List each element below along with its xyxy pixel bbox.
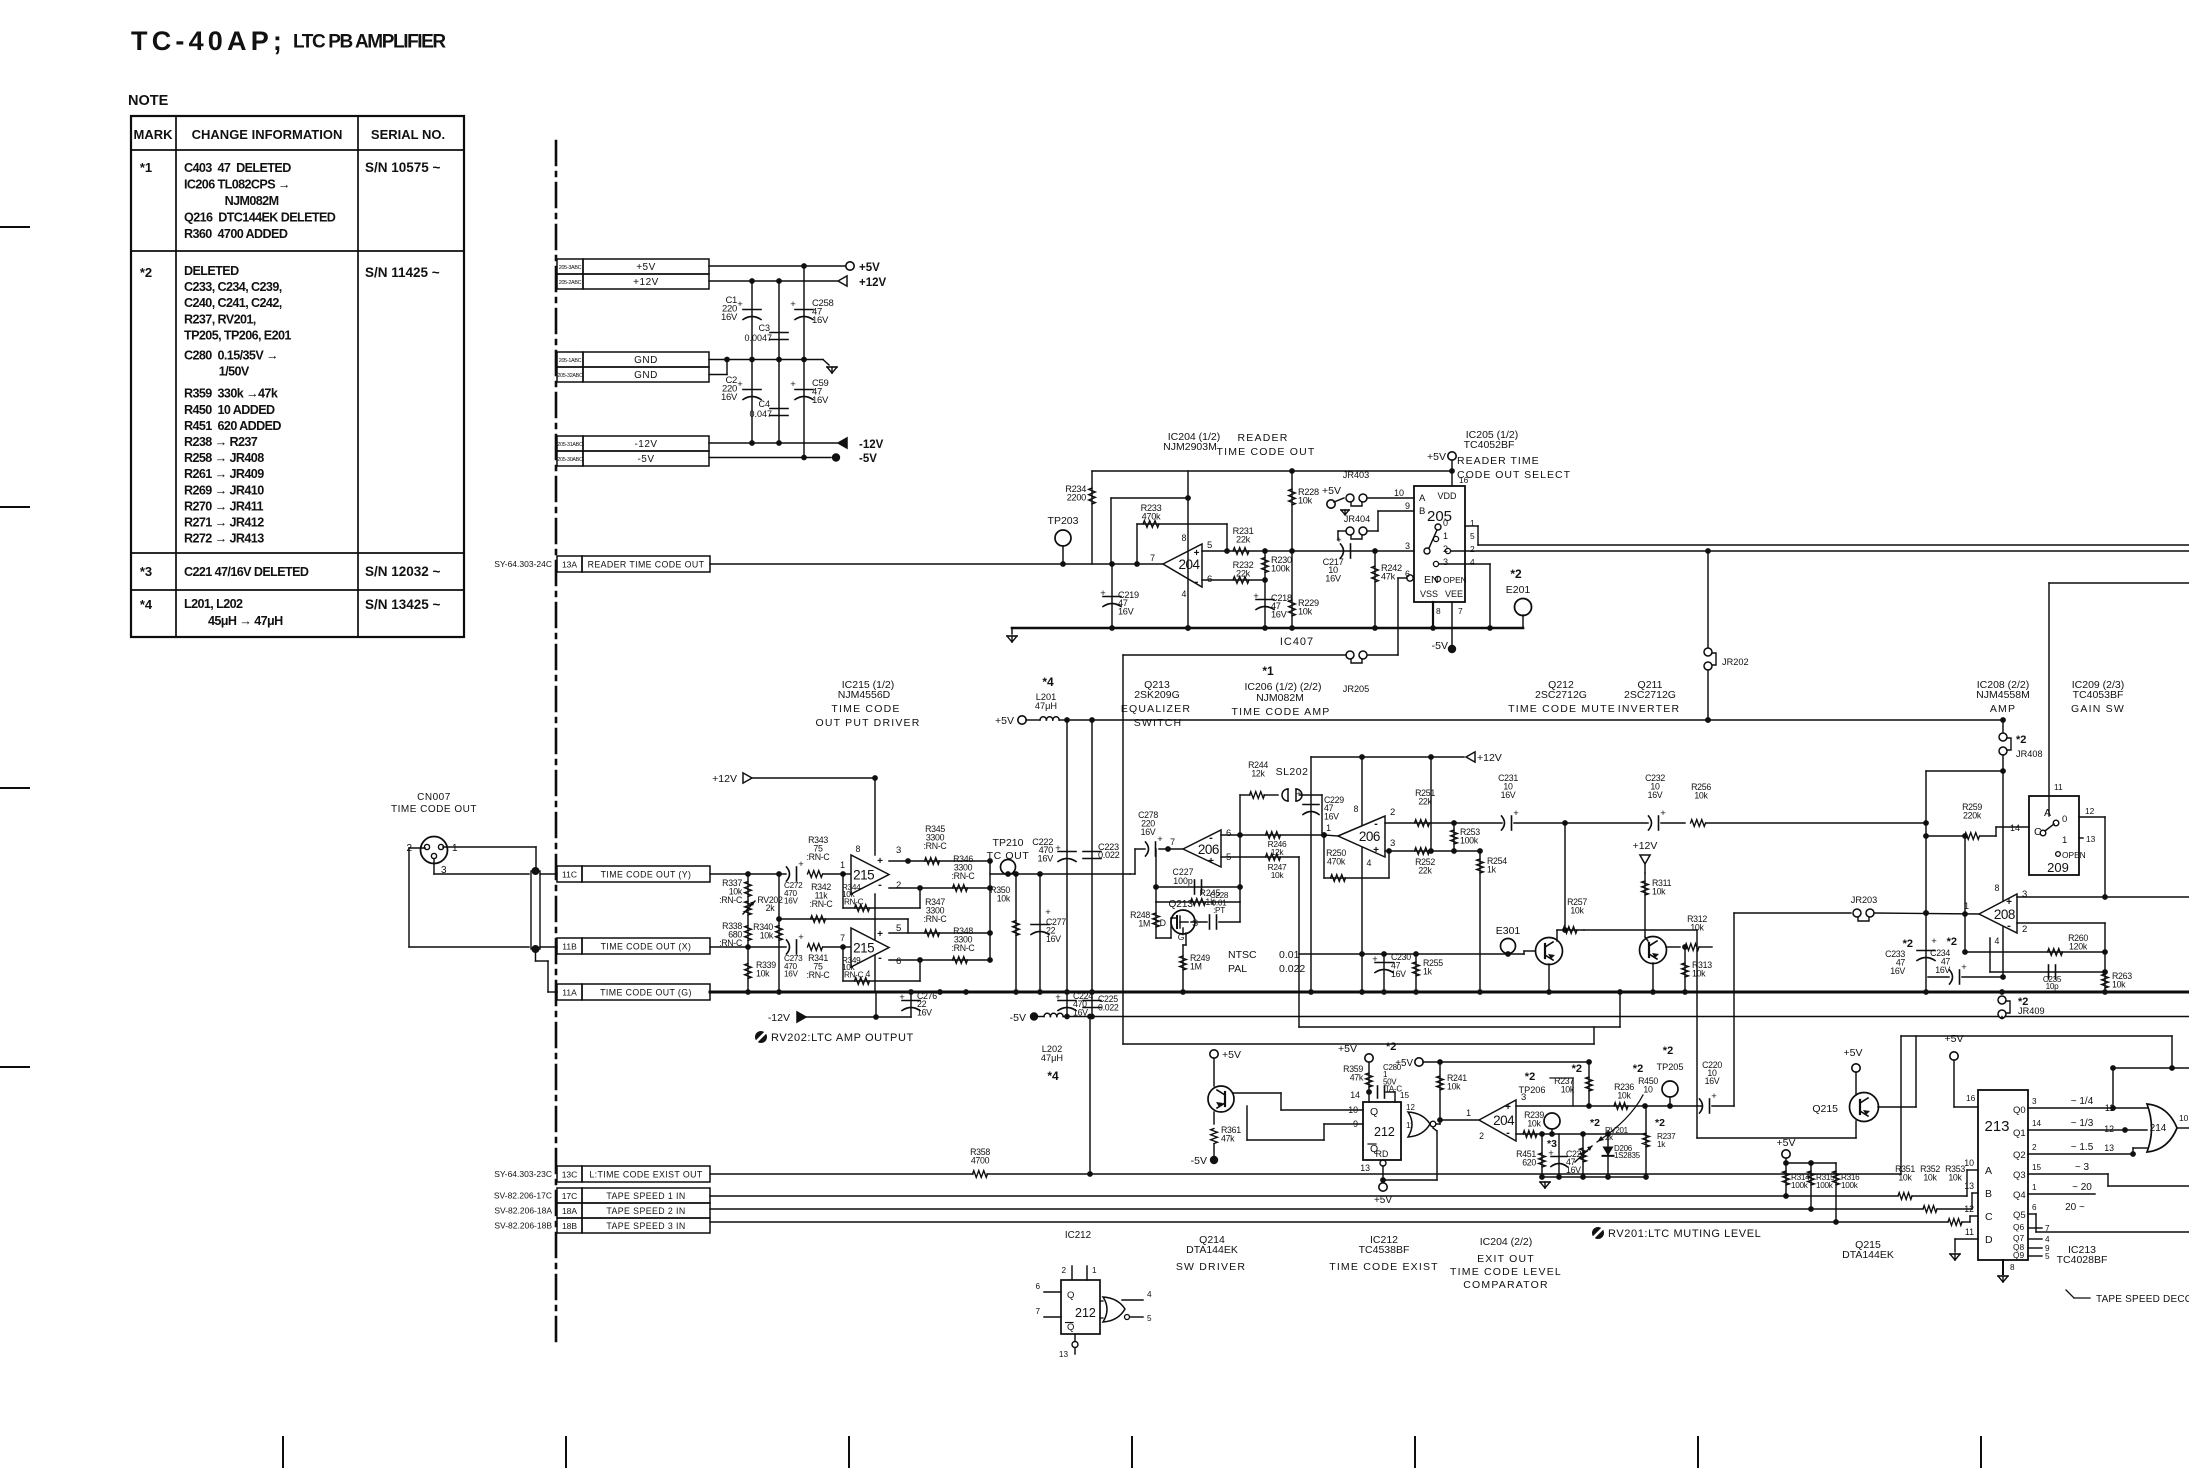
svg-text:620: 620: [1522, 1158, 1536, 1168]
svg-text:C233, C234, C239,: C233, C234, C239,: [184, 280, 282, 294]
capacitor C1: [721, 295, 761, 323]
wire 11C line: [710, 871, 786, 877]
svg-text:2: 2: [1470, 544, 1475, 554]
capacitor C258: [790, 298, 833, 326]
wire op-amp V- vertical: [875, 894, 876, 1017]
svg-text:+12V: +12V: [1633, 840, 1658, 852]
svg-text:-5V: -5V: [1191, 1155, 1207, 1167]
svg-text:214: 214: [2150, 1123, 2167, 1134]
svg-text:SY-64.303-24C: SY-64.303-24C: [494, 559, 552, 569]
svg-text:0.047: 0.047: [749, 409, 772, 419]
terminal +12V amp: [1466, 752, 1502, 764]
wire JR205 left long: [1123, 655, 1346, 1044]
svg-text:206: 206: [1198, 842, 1219, 857]
terminal +12V inverter: [1633, 840, 1658, 873]
wire -12V rail: [709, 440, 837, 446]
op-amp IC215-1 (215): [840, 844, 901, 894]
OR gate IC214 (214): [2104, 1103, 2189, 1153]
svg-text:-: -: [1506, 1127, 1510, 1139]
label READER TIME CODE OUT SELECT: [1457, 455, 1571, 481]
svg-text:S/N 11425 ~: S/N 11425 ~: [365, 265, 440, 280]
svg-text:TIME CODE: TIME CODE: [831, 703, 900, 715]
svg-text:-12V: -12V: [634, 439, 657, 450]
svg-text:10k: 10k: [1447, 1082, 1461, 1092]
wire 208 pin3 line: [2017, 894, 2189, 900]
svg-text:Q0: Q0: [2013, 1105, 2026, 1116]
svg-text:8: 8: [856, 844, 861, 854]
svg-text:16V: 16V: [1501, 790, 1516, 800]
svg-text:213: 213: [1984, 1118, 2009, 1135]
page tick mark left 3: [0, 787, 29, 789]
wire staircase L2: [1299, 989, 1623, 1044]
svg-text:G: G: [1178, 932, 1185, 942]
svg-text:S/N 13425 ~: S/N 13425 ~: [365, 597, 441, 612]
svg-text:*2: *2: [1663, 1045, 1673, 1057]
capacitor C277: [1031, 874, 1066, 992]
svg-text:2k: 2k: [766, 903, 776, 913]
svg-text:16V: 16V: [1038, 853, 1055, 863]
page tick mark bottom 5: [1414, 1437, 1416, 1467]
svg-text:-: -: [878, 952, 882, 964]
svg-text:18B: 18B: [562, 1221, 577, 1231]
svg-text:1: 1: [840, 860, 845, 870]
wire +5V rail main: [1064, 717, 2006, 723]
svg-text:C4: C4: [758, 399, 770, 409]
svg-text:15: 15: [2032, 1163, 2042, 1172]
svg-text:EN: EN: [1424, 574, 1439, 586]
svg-text:+: +: [899, 992, 905, 1003]
wire IC209 pin12 to 208: [2079, 817, 2105, 897]
capacitor C223: [1083, 720, 1120, 992]
svg-text:16V: 16V: [1391, 969, 1406, 979]
svg-text:NJM082M: NJM082M: [1256, 692, 1304, 704]
svg-text:READER TIME: READER TIME: [1457, 455, 1540, 467]
svg-text:R269 → JR410: R269 → JR410: [184, 483, 264, 497]
svg-text:NJM082M: NJM082M: [184, 194, 279, 208]
capacitor C224: [1055, 991, 1093, 1017]
wire mute row: [1299, 951, 1524, 957]
svg-text:2: 2: [2032, 1143, 2037, 1152]
svg-text:RV202:LTC AMP OUTPUT: RV202:LTC AMP OUTPUT: [771, 1032, 914, 1044]
svg-text:+: +: [1931, 936, 1937, 947]
svg-text:204: 204: [1493, 1113, 1515, 1128]
wire shield to 11B: [540, 946, 557, 948]
resistor R230: [1262, 551, 1292, 580]
svg-text:6: 6: [2032, 1203, 2037, 1212]
resistor R242: [1372, 551, 1402, 628]
wire JR203 line: [1734, 913, 1851, 1106]
svg-text:+: +: [877, 856, 883, 867]
svg-text:GND: GND: [634, 370, 658, 381]
IC205 pin number labels: [1394, 475, 1475, 616]
resistor R348: [952, 926, 976, 963]
svg-text:205-1ABC: 205-1ABC: [559, 358, 582, 364]
svg-text:L201, L202: L201, L202: [184, 597, 243, 611]
svg-text:7: 7: [840, 933, 845, 943]
NOTE label: [128, 93, 169, 109]
svg-text:10k: 10k: [1271, 870, 1285, 880]
note table header: [134, 127, 446, 142]
svg-text:0: 0: [1443, 518, 1448, 528]
wire R342 line: [779, 919, 908, 933]
label IC208 (2/2) NJM4558M AMP: [1976, 679, 2030, 715]
svg-text:16V: 16V: [1073, 1007, 1088, 1017]
svg-text:12: 12: [2104, 1124, 2114, 1134]
svg-text:13: 13: [2104, 1143, 2114, 1153]
svg-text:3: 3: [1390, 838, 1395, 849]
wire pin3 line 206-2: [1385, 848, 1483, 854]
jumper JR205: [1343, 651, 1370, 694]
svg-text:C403 47 DELETED: C403 47 DELETED: [184, 161, 291, 175]
svg-text:*4: *4: [1042, 675, 1054, 689]
svg-text:5: 5: [1147, 1314, 1152, 1323]
svg-text:*2: *2: [1590, 1117, 1600, 1129]
terminal -5V: [832, 453, 877, 465]
svg-text:TP205: TP205: [1656, 1062, 1683, 1072]
svg-text:100p: 100p: [1173, 876, 1193, 886]
resistor R251: [1415, 788, 1436, 826]
wire 13C to right column: [1901, 1036, 2175, 1174]
svg-text:11: 11: [2105, 1103, 2114, 1113]
resistor R263: [2102, 971, 2133, 995]
svg-text:+5V: +5V: [1222, 1049, 1241, 1061]
svg-text:2k: 2k: [1605, 1133, 1614, 1142]
svg-text:20 ~: 20 ~: [2065, 1202, 2085, 1213]
jumper JR409: [1998, 989, 2045, 1018]
svg-text:C3: C3: [758, 323, 770, 333]
svg-text:47μH: 47μH: [1035, 701, 1057, 711]
svg-text:1: 1: [2062, 835, 2067, 846]
svg-text:4: 4: [1470, 557, 1475, 567]
svg-text:8: 8: [2010, 1263, 2015, 1272]
svg-text:TP205, TP206, E201: TP205, TP206, E201: [184, 328, 291, 342]
svg-text:208: 208: [1994, 907, 2015, 922]
svg-text:100k: 100k: [1816, 1181, 1834, 1190]
svg-text:470k: 470k: [1142, 512, 1161, 522]
resistor R338: [719, 921, 751, 948]
bus 11A ground: [710, 989, 2189, 995]
connector 18B TAPE SPEED 3 IN: [494, 1218, 710, 1233]
svg-text:+: +: [1548, 1148, 1554, 1159]
wire staircase L3: [1123, 1043, 1594, 1045]
svg-text:JR203: JR203: [1851, 895, 1878, 905]
wire comparator pin3 line: [1516, 1103, 1702, 1109]
transistor Q214: [1208, 1086, 1234, 1124]
capacitor C229: [1296, 757, 1344, 992]
svg-text:5: 5: [1470, 531, 1475, 541]
svg-text:+5V: +5V: [1374, 1195, 1392, 1206]
resistor R340: [753, 922, 782, 941]
svg-text:Q: Q: [1067, 1322, 1074, 1333]
terminal -12V driver: [768, 1012, 911, 1024]
resistor R342: [810, 882, 834, 922]
svg-text:10k: 10k: [2112, 980, 2126, 990]
terminal +5V R314: [1777, 1137, 1836, 1166]
terminal +5V Q214: [1210, 1049, 1241, 1086]
resistor R229: [1289, 551, 1319, 628]
svg-text:-5V: -5V: [637, 454, 654, 465]
resistor R337: [719, 874, 751, 992]
page tick mark left 4: [0, 1066, 29, 1068]
resistor R231: [1233, 526, 1254, 554]
svg-text:Q1: Q1: [2013, 1128, 2026, 1139]
svg-text:+: +: [1208, 856, 1214, 867]
transistor Q212: [1524, 930, 1563, 992]
svg-text:LTC PB AMPLIFIER: LTC PB AMPLIFIER: [293, 32, 446, 53]
svg-text:10k: 10k: [1570, 906, 1584, 916]
page tick mark bottom 4: [1131, 1437, 1133, 1467]
svg-text:+: +: [1711, 1091, 1717, 1102]
capacitor C222: [1032, 720, 1076, 992]
wire +5V sub-rail reader: [1092, 468, 1455, 474]
svg-text:+: +: [1055, 992, 1061, 1003]
svg-text:TC4538BF: TC4538BF: [1359, 1244, 1410, 1256]
page tick mark bottom 1: [282, 1437, 284, 1467]
svg-text:47k: 47k: [1350, 1073, 1364, 1083]
svg-text:R271 → JR412: R271 → JR412: [184, 516, 264, 530]
svg-text:5: 5: [2045, 1252, 2050, 1261]
svg-text:+: +: [1336, 535, 1342, 546]
svg-text:MARK: MARK: [134, 127, 174, 142]
svg-text:9: 9: [1353, 1119, 1358, 1129]
svg-text:3: 3: [896, 845, 901, 856]
svg-text:7: 7: [2045, 1224, 2050, 1233]
capacitor C280: [1366, 1086, 1395, 1102]
capacitor C231: [1498, 773, 1568, 830]
svg-text:VSS: VSS: [1420, 589, 1438, 599]
svg-text:*2: *2: [1572, 1063, 1582, 1075]
wire pin5 line: [1202, 548, 1414, 554]
svg-text:100k: 100k: [1271, 564, 1290, 574]
svg-text:47μH: 47μH: [1041, 1053, 1063, 1063]
svg-text:C: C: [1985, 1211, 1993, 1223]
svg-text:100k: 100k: [1791, 1181, 1809, 1190]
svg-text:-12V: -12V: [768, 1012, 790, 1024]
svg-text:10k: 10k: [1948, 1173, 1962, 1183]
svg-text:TIME CODE OUT (X): TIME CODE OUT (X): [601, 941, 692, 951]
rheostat RV202: [743, 895, 783, 915]
wire 206 out node: [1321, 832, 1338, 838]
svg-text:L:TIME CODE EXIST OUT: L:TIME CODE EXIST OUT: [589, 1169, 703, 1179]
resistor R450 pointer: [1597, 1063, 1658, 1142]
svg-text:EQUALIZER: EQUALIZER: [1121, 703, 1191, 715]
svg-text:16V: 16V: [812, 315, 829, 326]
wire JR408 cross link: [1923, 771, 2006, 980]
svg-text:1: 1: [1466, 1108, 1471, 1118]
svg-text:SERIAL NO.: SERIAL NO.: [371, 127, 445, 142]
label READER TIME CODE OUT: [1216, 432, 1315, 458]
resistor R241: [1437, 1062, 1468, 1120]
svg-text:IC212: IC212: [1065, 1230, 1091, 1241]
svg-text:TC-40AP;: TC-40AP;: [131, 26, 286, 56]
wire +12V to pin8: [874, 778, 876, 855]
resistor R346: [952, 854, 976, 891]
svg-text:TC4053BF: TC4053BF: [2073, 689, 2124, 701]
spark gap SL202: [1276, 766, 1309, 801]
svg-text:16V: 16V: [1324, 811, 1339, 821]
wire -5V rail: [709, 455, 831, 461]
svg-text:12: 12: [1406, 1103, 1415, 1112]
wire tape speed 3 line: [710, 1219, 1948, 1225]
IC205 selector box (205): [1414, 486, 1467, 602]
connector 13A READER TIME CODE OUT: [494, 556, 710, 572]
resistor R255: [1413, 954, 1444, 992]
svg-text:10k: 10k: [1652, 887, 1666, 897]
svg-text:12k: 12k: [1251, 769, 1265, 779]
svg-text:14: 14: [2010, 823, 2020, 833]
IC213 pin D wire: [1950, 1239, 1978, 1260]
svg-text:E301: E301: [1496, 925, 1521, 937]
svg-text:16V: 16V: [1890, 966, 1905, 976]
wire 11B line: [710, 944, 786, 950]
resistor R247: [1266, 854, 1288, 880]
comparator ground row: [1539, 1174, 1649, 1188]
page tick mark bottom 2: [565, 1437, 567, 1467]
svg-text:+: +: [1513, 808, 1519, 819]
inductor L202: [1038, 1013, 1067, 1016]
jumper JR403: [1341, 470, 1369, 515]
svg-text:INVERTER: INVERTER: [1618, 703, 1681, 715]
wire R342 node vertical: [776, 874, 782, 992]
svg-text:10k: 10k: [1690, 923, 1704, 933]
svg-text:Q5: Q5: [2013, 1210, 2026, 1221]
svg-text:22k: 22k: [1236, 569, 1251, 579]
svg-text:16V: 16V: [1046, 934, 1061, 944]
svg-text:*2: *2: [1633, 1063, 1643, 1075]
wire bias vertical: [1428, 757, 1434, 854]
resistor R341: [807, 944, 846, 980]
wire CN007 pin1 to shield: [443, 847, 536, 871]
terminal +5V JR403: [1322, 485, 1344, 508]
wire shield to 11A: [536, 953, 558, 992]
svg-text:VDD: VDD: [1437, 491, 1457, 501]
connector CN007 body: [406, 837, 458, 877]
svg-text:16V: 16V: [1566, 1165, 1581, 1175]
svg-text:+: +: [1194, 548, 1200, 559]
svg-text:S/N 10575 ~: S/N 10575 ~: [365, 160, 441, 175]
svg-text:R360 4700 ADDED: R360 4700 ADDED: [184, 227, 288, 241]
IC205 pin16 +5V: [1427, 451, 1456, 486]
IC213 output Q4: [2028, 1182, 2095, 1194]
svg-text:13: 13: [2086, 834, 2096, 844]
svg-text:-: -: [1374, 818, 1378, 830]
capacitor C221: [1547, 1134, 1586, 1177]
svg-text:205: 205: [1427, 508, 1452, 525]
wire bus dots right: [1180, 989, 1929, 995]
svg-text:*4: *4: [1047, 1069, 1059, 1083]
capacitor C4: [749, 399, 788, 419]
IC212 box (212): [1363, 1102, 1401, 1160]
title TC-40AP: [131, 26, 286, 56]
wire op-amp power vertical: [1185, 471, 1191, 631]
svg-text:R451 620 ADDED: R451 620 ADDED: [184, 419, 281, 433]
svg-text::RN-C: :RN-C: [810, 899, 834, 909]
svg-text:-5V: -5V: [859, 453, 877, 465]
resistor R311: [1642, 873, 1672, 937]
svg-text:1k: 1k: [1657, 1140, 1666, 1149]
svg-text:1: 1: [1092, 1266, 1097, 1275]
svg-text:2SC2712G: 2SC2712G: [1535, 689, 1587, 701]
resistor R259: [1923, 802, 2029, 839]
svg-text:*2: *2: [1510, 567, 1522, 581]
OR gate IC212 package 2: [1100, 1290, 1152, 1323]
svg-text:0.022: 0.022: [1098, 1003, 1119, 1013]
resistor R353: [1945, 1164, 1978, 1225]
label Q211 2SC2712G INVERTER: [1618, 679, 1681, 715]
jumper JR404: [1344, 514, 1371, 539]
IC212 pin labels: [1348, 1090, 1415, 1173]
IC205 internal switch: [1424, 524, 1451, 567]
svg-text:JR408: JR408: [2016, 749, 2043, 759]
capacitor C218: [1253, 580, 1292, 628]
svg-text:CN007: CN007: [417, 792, 451, 803]
resistor R248: [1130, 902, 1171, 938]
op-amp IC208 (208): [1964, 883, 2027, 946]
svg-text:2: 2: [2022, 924, 2027, 935]
svg-text:8: 8: [1436, 606, 1441, 616]
wire GND2 jog: [709, 360, 727, 375]
svg-text:AMP: AMP: [1990, 703, 2016, 715]
svg-text:NOTE: NOTE: [128, 93, 169, 109]
svg-text:R359 330k →47k: R359 330k →47k: [184, 387, 279, 401]
svg-text:220k: 220k: [1963, 811, 1982, 821]
svg-text:10k: 10k: [760, 931, 774, 941]
capacitor C2: [721, 375, 761, 403]
capacitor C273: [784, 932, 804, 979]
svg-text:Q: Q: [1370, 1106, 1378, 1118]
connector 205-32ABC GND: [557, 367, 709, 382]
wire C231 node down: [1562, 823, 1568, 933]
svg-text:10k: 10k: [997, 894, 1011, 904]
svg-text:RV201:LTC MUTING LEVEL: RV201:LTC MUTING LEVEL: [1608, 1228, 1761, 1240]
wire Q214 to IC212 pin9: [1247, 1106, 1363, 1140]
jumper JR203: [1851, 895, 1878, 921]
svg-text:13A: 13A: [562, 560, 577, 570]
svg-text:10k: 10k: [1298, 607, 1313, 617]
svg-text:22k: 22k: [1236, 535, 1251, 545]
resistor R358: [970, 1147, 990, 1177]
wire IC205 out2 row: [1451, 550, 2189, 552]
capacitor C234: [1928, 936, 2003, 984]
wire pin6 line: [1202, 577, 1268, 583]
note row *3: [140, 564, 441, 579]
wire IC205 out3 to bus: [1439, 564, 1493, 631]
IC213 output Q3: [2028, 1162, 2189, 1186]
svg-text::RN-C: :RN-C: [924, 841, 948, 851]
svg-text:DTA144EK: DTA144EK: [1842, 1249, 1894, 1261]
svg-text:0.022: 0.022: [1098, 850, 1120, 860]
svg-text:JR205: JR205: [1343, 684, 1370, 694]
terminal +5V main rail: [995, 715, 1026, 727]
svg-text:13: 13: [1964, 1181, 1974, 1191]
resistor R316: [1833, 1163, 1861, 1222]
wire +12V rail: [709, 278, 837, 284]
svg-text:206: 206: [1359, 829, 1380, 844]
svg-text:C280 0.15/35V →: C280 0.15/35V →: [184, 349, 278, 363]
wire cap column C1/C2: [751, 281, 753, 443]
svg-text:D: D: [1160, 918, 1166, 928]
svg-text:205-3ABC: 205-3ABC: [559, 265, 582, 271]
capacitor C276: [899, 991, 937, 1017]
svg-text:15: 15: [1400, 1091, 1410, 1100]
svg-text:R237, RV201,: R237, RV201,: [184, 312, 256, 326]
svg-text:*4: *4: [140, 597, 153, 612]
svg-text:TIME CODE EXIST: TIME CODE EXIST: [1329, 1261, 1439, 1273]
svg-text::RN-C: :RN-C: [842, 970, 864, 979]
wire 13C time code exist line: [710, 1171, 1901, 1177]
svg-text:SV-82.206-18A: SV-82.206-18A: [494, 1206, 552, 1216]
connector 205-30ABC -5V: [557, 451, 709, 466]
